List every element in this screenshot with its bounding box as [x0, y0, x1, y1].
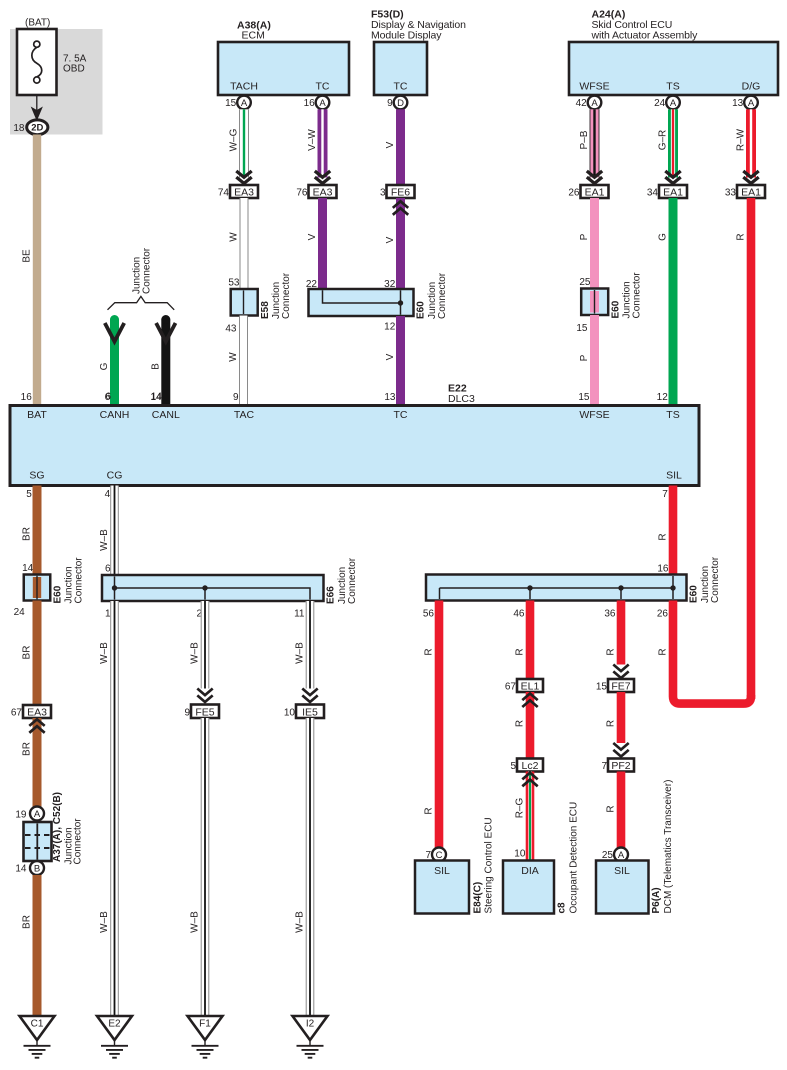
svg-text:36: 36: [604, 609, 616, 620]
wire G CANH: [110, 320, 119, 406]
wire BR SG lower: [33, 875, 42, 1016]
junction connector A37(A) C52(B): [30, 807, 44, 821]
svg-text:E2: E2: [108, 1019, 121, 1030]
wire W-B E66 pin 2 lower: [201, 718, 210, 1016]
svg-text:P6(A): P6(A): [651, 887, 662, 913]
svg-text:Connector: Connector: [347, 557, 358, 604]
brace over CAN wires: [108, 296, 175, 309]
connector EL1 pin 67: [517, 679, 543, 692]
svg-text:SIL: SIL: [666, 470, 682, 482]
arrow up below EL1: [522, 700, 537, 707]
junction connector E58: [231, 289, 258, 316]
wire R EL1 to Lc2: [526, 692, 535, 759]
connector FE5 pin 9: [191, 705, 219, 719]
wire BR SG mid: [33, 601, 42, 719]
svg-text:BAT: BAT: [27, 409, 47, 421]
svg-text:56: 56: [423, 609, 435, 620]
svg-text:W–B: W–B: [99, 911, 110, 933]
wire W-B E66 pin 11 lower: [306, 718, 315, 1016]
arrow on CANH: [105, 323, 124, 342]
svg-text:16: 16: [21, 392, 33, 403]
wire P-B WFSE: [590, 109, 600, 177]
svg-text:F1: F1: [199, 1019, 211, 1030]
pin 16 A of A38: [316, 96, 330, 110]
svg-text:PF2: PF2: [611, 760, 630, 772]
svg-text:IE5: IE5: [302, 706, 318, 718]
svg-text:A: A: [34, 809, 41, 820]
svg-text:14: 14: [15, 864, 27, 875]
svg-text:R: R: [606, 805, 617, 812]
svg-text:TS: TS: [666, 409, 679, 421]
svg-text:R: R: [424, 648, 435, 655]
svg-text:10: 10: [514, 849, 526, 860]
pin 42 A of A24: [588, 96, 602, 110]
svg-text:TS: TS: [666, 81, 679, 93]
svg-text:R: R: [606, 648, 617, 655]
ECU P6(A) DCM box: [596, 861, 649, 914]
svg-text:24: 24: [654, 98, 666, 109]
svg-text:G: G: [99, 362, 110, 370]
connector 2D pin 18: [27, 120, 48, 135]
svg-text:67: 67: [11, 708, 23, 719]
svg-text:14: 14: [22, 563, 34, 574]
svg-text:W–B: W–B: [99, 642, 110, 664]
svg-text:A: A: [670, 98, 677, 109]
svg-text:18: 18: [13, 123, 25, 134]
svg-text:D: D: [397, 98, 404, 109]
svg-text:Module Display: Module Display: [371, 30, 442, 42]
svg-text:Connector: Connector: [142, 247, 153, 294]
svg-text:E66: E66: [326, 586, 337, 604]
connector FE7 pin 15: [608, 679, 634, 692]
svg-text:13: 13: [732, 98, 744, 109]
wire R E60 pin 36 to FE7: [617, 601, 626, 665]
svg-text:DIA: DIA: [521, 865, 539, 877]
svg-text:1: 1: [105, 609, 111, 620]
svg-text:BE: BE: [22, 249, 33, 263]
wire R E60 pin 56 to Steering ECU: [435, 601, 444, 848]
svg-text:R: R: [658, 533, 669, 540]
arrow up below FE6: [393, 208, 408, 215]
svg-text:W: W: [228, 352, 239, 362]
svg-text:5: 5: [26, 489, 32, 500]
svg-text:74: 74: [218, 188, 230, 199]
svg-text:E84(C): E84(C): [472, 882, 483, 914]
wire V-W TC: [318, 109, 328, 177]
svg-text:33: 33: [725, 188, 737, 199]
svg-text:BR: BR: [22, 646, 33, 660]
svg-text:R: R: [736, 233, 747, 240]
svg-text:I2: I2: [306, 1019, 315, 1030]
svg-text:G–R: G–R: [658, 130, 669, 151]
arrow down to EA1 34: [665, 171, 680, 177]
svg-text:12: 12: [657, 392, 669, 403]
arrow down to EA3 76: [315, 171, 330, 177]
svg-text:TAC: TAC: [234, 409, 255, 421]
svg-text:R: R: [658, 648, 669, 655]
wire W-B E66 pin 1: [110, 601, 119, 1016]
svg-text:CG: CG: [107, 470, 123, 482]
svg-text:26: 26: [657, 609, 669, 620]
svg-text:15: 15: [576, 323, 588, 334]
svg-text:67: 67: [505, 682, 517, 693]
svg-text:10: 10: [284, 708, 296, 719]
junction connector E60 pink: [581, 289, 608, 316]
svg-text:R: R: [606, 720, 617, 727]
svg-text:(BAT): (BAT): [25, 18, 50, 29]
svg-text:R–G: R–G: [515, 797, 526, 818]
svg-text:R: R: [515, 720, 526, 727]
svg-text:16: 16: [304, 98, 316, 109]
svg-text:15: 15: [225, 98, 237, 109]
svg-text:BR: BR: [22, 915, 33, 929]
pin 15 A of A38: [237, 96, 251, 110]
svg-text:E60: E60: [610, 300, 621, 318]
svg-text:TACH: TACH: [230, 81, 258, 93]
svg-text:7: 7: [601, 761, 607, 772]
wire R E60 pin 46 to EL1: [526, 601, 535, 693]
arrow down above FE5: [197, 689, 212, 696]
svg-text:W–B: W–B: [190, 911, 201, 933]
svg-text:Connector: Connector: [437, 272, 448, 319]
connector EA3 pin 67: [23, 705, 51, 718]
svg-text:14: 14: [150, 392, 162, 403]
svg-text:A: A: [591, 98, 598, 109]
pin 7 C of E84: [432, 848, 446, 862]
pin 9 D of F53: [394, 96, 408, 110]
wire W-G TACH: [239, 109, 249, 177]
connector Lc2 pin 5: [517, 759, 543, 772]
pin 24 A of A24: [666, 96, 680, 110]
svg-text:32: 32: [384, 279, 396, 290]
svg-text:Connector: Connector: [73, 818, 84, 865]
svg-text:B: B: [150, 363, 161, 370]
connector EA3 pin 74: [230, 185, 258, 198]
svg-text:FE6: FE6: [391, 186, 410, 198]
svg-text:W–B: W–B: [295, 911, 306, 933]
ECU c8 Occupant Detection box: [503, 861, 554, 914]
wire V to DLC3 TC: [396, 316, 405, 406]
svg-text:5: 5: [510, 761, 516, 772]
svg-text:SIL: SIL: [614, 865, 630, 877]
svg-text:V–W: V–W: [307, 129, 318, 151]
svg-text:11: 11: [294, 609, 305, 620]
svg-text:G: G: [658, 233, 669, 241]
svg-text:Connector: Connector: [74, 557, 85, 604]
ECU A38(A) ECM box: [218, 42, 349, 95]
svg-text:EA3: EA3: [234, 186, 254, 198]
svg-text:E60: E60: [52, 585, 63, 603]
ground I2: [293, 1016, 328, 1040]
pin 13 A of A24: [744, 96, 758, 110]
svg-text:with Actuator Assembly: with Actuator Assembly: [591, 30, 699, 42]
wire P to DLC3 WFSE: [590, 315, 599, 406]
wire R PF2 to DCM: [617, 772, 626, 848]
svg-text:B: B: [34, 863, 40, 874]
ECU A24(A) box: [569, 42, 778, 95]
arrow down to EA1 33: [743, 171, 758, 177]
wire W-B E66 pin 2 upper: [201, 601, 210, 689]
wire R-W D/G: [746, 109, 756, 177]
wire fuse to connector 2D: [36, 95, 38, 119]
svg-text:W–G: W–G: [229, 128, 240, 151]
svg-text:7: 7: [662, 489, 668, 500]
svg-text:CANL: CANL: [152, 409, 180, 421]
wire V F53 TC: [396, 109, 405, 185]
wire R SIL upper: [669, 486, 678, 575]
svg-text:6: 6: [105, 392, 111, 403]
svg-text:EL1: EL1: [521, 680, 540, 692]
junction connector E60 right: [426, 575, 687, 601]
fuse block background: [10, 29, 103, 135]
arrow down above IE5: [302, 689, 317, 696]
connector EA1 pin 34: [659, 185, 687, 198]
connector PF2 pin 7: [608, 759, 634, 772]
svg-text:EA1: EA1: [741, 186, 761, 198]
svg-text:E60: E60: [689, 585, 700, 603]
svg-text:E58: E58: [260, 301, 271, 319]
svg-text:P: P: [579, 354, 590, 361]
svg-text:A: A: [748, 98, 755, 109]
svg-text:16: 16: [657, 564, 669, 575]
ground E2: [97, 1016, 132, 1040]
svg-text:SIL: SIL: [434, 865, 450, 877]
wire W-B CG upper: [110, 486, 119, 576]
svg-text:15: 15: [578, 392, 590, 403]
svg-text:P: P: [579, 233, 590, 240]
wire B CANL: [161, 320, 170, 406]
svg-text:WFSE: WFSE: [579, 409, 609, 421]
ground C1: [20, 1016, 55, 1040]
svg-text:W–B: W–B: [99, 529, 110, 551]
svg-text:c8: c8: [556, 902, 567, 914]
svg-text:R–W: R–W: [736, 128, 747, 151]
svg-text:4: 4: [105, 489, 111, 500]
junction connector E66: [102, 575, 324, 601]
wire R FE7 to PF2: [617, 692, 626, 743]
svg-text:6: 6: [105, 564, 111, 575]
svg-text:CANH: CANH: [100, 409, 130, 421]
svg-text:BR: BR: [22, 742, 33, 756]
wire BR SG upper: [33, 486, 42, 575]
wire BE battery: [33, 135, 41, 406]
svg-text:TC: TC: [394, 409, 408, 421]
svg-text:13: 13: [384, 392, 396, 403]
wire BR SG mid2: [33, 718, 42, 807]
svg-text:C1: C1: [31, 1019, 44, 1030]
wire W TAC lower: [239, 316, 248, 406]
svg-text:9: 9: [387, 98, 393, 109]
svg-text:Connector: Connector: [281, 272, 292, 319]
svg-text:V: V: [307, 233, 318, 240]
svg-text:EA1: EA1: [585, 186, 605, 198]
svg-text:V: V: [385, 141, 396, 148]
wire V to E60 pin 22: [318, 198, 327, 289]
svg-text:A: A: [241, 98, 248, 109]
fuse F OBD 7.5A: [17, 29, 57, 95]
svg-text:FE5: FE5: [195, 706, 214, 718]
arrow on CANL: [156, 323, 175, 342]
svg-text:W–B: W–B: [295, 642, 306, 664]
junction connector E60 violet: [309, 289, 414, 316]
connector EA1 pin 33: [737, 185, 765, 198]
wire P to E60 pin 25: [590, 198, 599, 288]
wire R from D/G to E60 pin 26: [673, 601, 751, 704]
ECU E84(C) Steering Control box: [415, 861, 469, 914]
connector FE6 pin 3: [387, 185, 415, 198]
svg-text:15: 15: [596, 682, 608, 693]
svg-text:P–B: P–B: [579, 130, 590, 149]
arrow up below EA3 67: [29, 726, 44, 733]
arrow down to EA3 74: [236, 171, 251, 177]
svg-text:V: V: [385, 353, 396, 360]
ground F1: [188, 1016, 223, 1040]
wire R-G Lc2 to DIA: [526, 772, 535, 861]
svg-text:R: R: [515, 648, 526, 655]
wire G-R TS: [668, 109, 678, 177]
svg-text:D/G: D/G: [742, 81, 761, 93]
svg-text:EA3: EA3: [313, 186, 333, 198]
svg-text:E60: E60: [416, 301, 427, 319]
wire V FE6 to E60 pin 32: [396, 198, 405, 289]
junction connector E60 left: [24, 575, 51, 601]
svg-text:TC: TC: [316, 81, 330, 93]
svg-text:EA1: EA1: [663, 186, 683, 198]
svg-text:TC: TC: [394, 81, 408, 93]
svg-text:46: 46: [513, 609, 525, 620]
arrow down to EA1 26: [587, 171, 602, 177]
pin 25 A of P6: [614, 848, 628, 862]
svg-text:EA3: EA3: [27, 706, 47, 718]
svg-text:34: 34: [647, 188, 659, 199]
svg-text:2D: 2D: [31, 123, 43, 134]
arrow down above FE7: [613, 665, 628, 672]
svg-text:26: 26: [568, 188, 580, 199]
svg-text:ECM: ECM: [242, 30, 265, 42]
svg-text:A37(A), C52(B): A37(A), C52(B): [52, 792, 63, 862]
svg-text:OBD: OBD: [63, 64, 85, 75]
svg-text:W–B: W–B: [190, 642, 201, 664]
arrow up below Lc2: [522, 780, 537, 787]
svg-text:Connector: Connector: [632, 272, 643, 319]
svg-text:9: 9: [233, 392, 239, 403]
svg-text:DCM (Telematics Transceiver): DCM (Telematics Transceiver): [663, 780, 674, 914]
svg-text:Occupant Detection ECU: Occupant Detection ECU: [568, 802, 579, 914]
svg-text:9: 9: [184, 708, 190, 719]
wire W-B E66 pin 11 upper: [306, 601, 315, 689]
svg-text:FE7: FE7: [611, 680, 630, 692]
svg-text:BR: BR: [22, 527, 33, 541]
wire G TS to DLC3: [669, 198, 678, 406]
connector EA1 pin 26: [581, 185, 609, 198]
svg-text:12: 12: [384, 322, 396, 333]
svg-text:W: W: [229, 232, 240, 242]
svg-text:Connector: Connector: [710, 556, 721, 603]
svg-text:25: 25: [579, 277, 591, 288]
svg-text:Lc2: Lc2: [522, 760, 539, 772]
ECU F53(D) box: [374, 42, 427, 95]
arrow down above PF2: [613, 743, 628, 750]
svg-text:43: 43: [225, 324, 237, 335]
svg-text:V: V: [385, 236, 396, 243]
wire W TAC upper: [240, 198, 249, 289]
ECU E22 DLC3 box: [10, 406, 699, 486]
svg-text:22: 22: [306, 279, 318, 290]
svg-text:A: A: [319, 98, 326, 109]
svg-text:Steering Control ECU: Steering Control ECU: [483, 817, 494, 913]
svg-text:19: 19: [15, 810, 27, 821]
svg-text:24: 24: [14, 607, 26, 618]
svg-text:53: 53: [228, 278, 240, 289]
svg-text:SG: SG: [29, 470, 44, 482]
svg-text:76: 76: [296, 188, 308, 199]
connector IE5 pin 10: [296, 705, 324, 719]
svg-text:DLC3: DLC3: [448, 393, 475, 405]
wire R D/G vertical: [747, 198, 756, 699]
svg-text:R: R: [424, 807, 435, 814]
svg-text:3: 3: [380, 188, 386, 199]
svg-text:42: 42: [576, 98, 588, 109]
svg-text:WFSE: WFSE: [579, 81, 609, 93]
connector EA3 pin 76: [309, 185, 337, 198]
